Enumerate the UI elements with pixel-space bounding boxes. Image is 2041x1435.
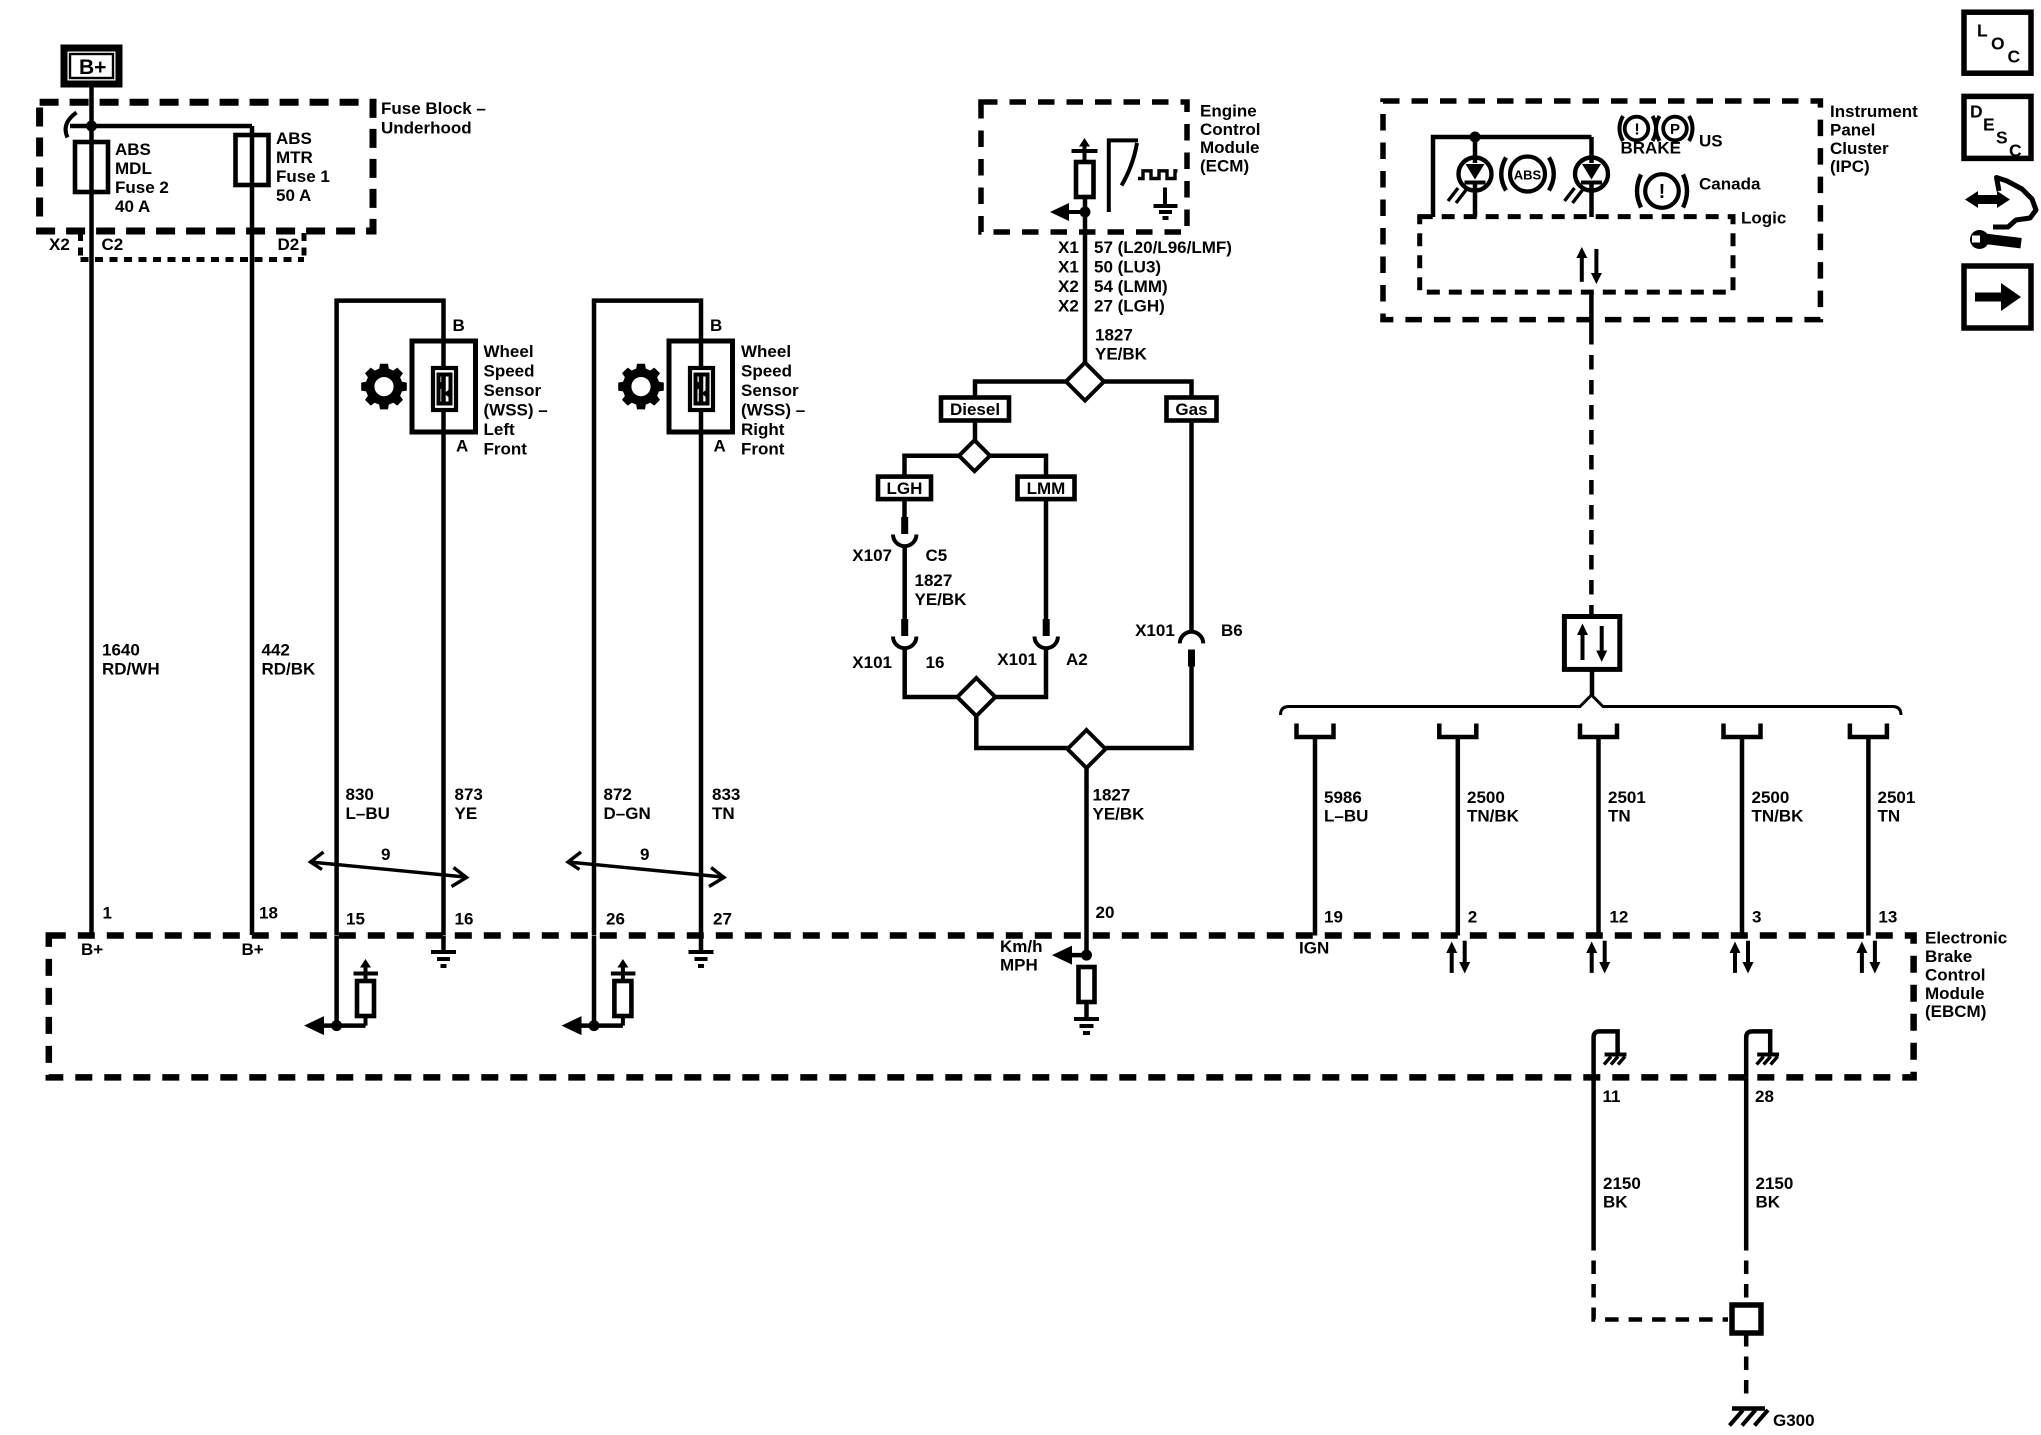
svg-text:20: 20 [1096,903,1115,922]
svg-text:YE/BK: YE/BK [1095,345,1148,364]
svg-text:27: 27 [713,910,732,929]
serial data arrows pin 2 [1446,941,1470,974]
svg-text:C: C [2008,47,2021,67]
splice block node [1732,1305,1761,1333]
serial data arrows in box [1577,624,1607,663]
svg-text:!: ! [1634,122,1639,139]
wire 833 TN label [712,785,740,823]
svg-text:X2: X2 [1058,297,1079,316]
svg-text:IGN: IGN [1299,939,1329,958]
svg-text:Canada: Canada [1699,175,1761,194]
wire S2 to LGH [905,456,960,477]
wire 2501 TN a [1596,739,1601,936]
svg-text:D: D [1970,102,1983,122]
svg-text:YE/BK: YE/BK [915,590,968,609]
svg-text:Fuse 2: Fuse 2 [115,178,169,197]
svg-text:B6: B6 [1221,621,1243,640]
wire 2150 BK label b [1756,1174,1794,1212]
dashed wire pin 28 to splice [1744,1237,1749,1302]
svg-text:5986: 5986 [1324,788,1362,807]
svg-text:Sensor: Sensor [484,381,542,400]
svg-text:442: 442 [262,641,290,660]
wire 2501 TN label b [1878,788,1916,826]
Gas box [1167,398,1217,421]
wire 1827 YE/BK to EBCM pin 20 [1084,768,1089,955]
svg-text:50 A: 50 A [276,186,311,205]
svg-text:Cluster: Cluster [1830,139,1889,158]
svg-text:C5: C5 [926,546,948,565]
wire 872 D-GN label [604,785,651,823]
wire 1827 YE/BK label upper [1095,326,1148,364]
wire 5986 L-BU label [1324,788,1368,826]
serial data symbol box [1564,617,1619,670]
svg-text:D2: D2 [278,235,300,254]
svg-text:Brake: Brake [1925,947,1972,966]
svg-text:12: 12 [1609,908,1628,927]
svg-text:11: 11 [1603,1087,1621,1106]
svg-text:L–BU: L–BU [1324,807,1368,826]
splice diamond S2 [959,440,990,471]
svg-text:X101: X101 [997,650,1037,669]
wire 2500 TN/BK label b [1752,788,1805,826]
svg-text:Km/h: Km/h [1000,937,1043,956]
wire 2501 TN b [1866,739,1871,936]
wire 2501 TN label a [1608,788,1646,826]
wire splice jumper to ABS MTR fuse [70,124,252,129]
svg-text:Wheel: Wheel [484,342,534,361]
svg-text:B+: B+ [79,56,106,79]
branch connector pin 13 [1850,724,1887,738]
svg-text:873: 873 [455,785,483,804]
ground symbol pin 16 [431,936,456,967]
svg-text:872: 872 [604,785,632,804]
wire WSS right front loop 872/833 [594,301,701,935]
svg-text:B+: B+ [81,940,103,959]
wire LMM to connector X101 A2 [1044,499,1049,620]
svg-text:1: 1 [103,904,112,923]
wire box to brace [1590,669,1595,696]
svg-text:1640: 1640 [102,641,140,660]
serial data arrows in logic box [1576,247,1602,284]
Fuse Block - Underhood dashed box [40,102,373,231]
svg-text:2501: 2501 [1608,788,1646,807]
svg-text:Electronic: Electronic [1925,929,2007,948]
twisted pair symbol left with note 9 [311,845,467,887]
svg-text:B: B [453,316,465,335]
inline connector X107 C5 [893,517,916,546]
svg-text:2: 2 [1468,908,1477,927]
wire diamond to Diesel [975,382,1066,398]
svg-text:A2: A2 [1066,650,1088,669]
svg-text:1827: 1827 [1093,785,1131,804]
wire 2150 BK label a [1603,1174,1641,1212]
power symbol in ECM [1072,138,1098,162]
svg-text:Front: Front [484,440,528,459]
wire 2150 BK pin 11 [1591,1077,1596,1237]
svg-text:57 (L20/L96/LMF): 57 (L20/L96/LMF) [1094,238,1232,257]
svg-text:3: 3 [1752,908,1761,927]
LOC reference box icon [1964,12,2031,73]
svg-text:RD/WH: RD/WH [102,660,160,679]
wheel speed sensor WSS left front box [412,341,476,432]
connector X2 strip dashed [81,233,305,260]
svg-text:1827: 1827 [915,571,953,590]
svg-text:ABS: ABS [115,140,151,159]
svg-text:Left: Left [484,420,516,439]
svg-text:C2: C2 [102,235,124,254]
svg-text:Control: Control [1200,120,1260,139]
arrow to other circuits in ECM [1050,203,1085,221]
pullup network pin 15 [304,936,378,1036]
svg-text:X107: X107 [852,546,892,565]
wire Diesel to diamond S2 [973,421,978,441]
fuse F1 ABS MTR 50A [236,135,269,185]
svg-text:Module: Module [1200,138,1260,157]
LMM box [1018,477,1075,500]
splice diamond S3 [957,678,995,716]
svg-text:L–BU: L–BU [346,804,390,823]
hook arc at splice [66,113,77,138]
svg-text:B: B [710,316,722,335]
gear icon left [361,364,407,410]
svg-text:X101: X101 [852,653,892,672]
wire resistor to output [1083,197,1088,363]
dashed serial data wire IPC to EBCM [1589,330,1594,614]
svg-text:27 (LGH): 27 (LGH) [1094,297,1165,316]
wire Gas to connector X101 B6 [1189,421,1194,633]
svg-text:US: US [1699,132,1723,151]
Electronic Brake Control Module EBCM dashed box [49,936,1914,1078]
splice diamond S4 [1068,730,1106,768]
svg-text:1827: 1827 [1095,326,1133,345]
wire 5986 L-BU [1313,739,1318,936]
svg-text:Right: Right [741,420,785,439]
svg-text:BK: BK [1603,1193,1628,1212]
wire lamp1 drop [1473,137,1478,217]
svg-text:X2: X2 [49,235,70,254]
svg-text:833: 833 [712,785,740,804]
svg-text:54 (LMM): 54 (LMM) [1094,277,1168,296]
dashed wire splice to G300 [1744,1333,1749,1402]
wire 2500 TN/BK label a [1467,788,1520,826]
svg-text:2150: 2150 [1603,1174,1641,1193]
ground G300 symbol [1730,1409,1769,1426]
wire X101-A2 to diamond S3 [995,648,1046,697]
label fuse 1 value [276,129,330,205]
wire 1827 YE/BK label mid [915,571,968,609]
svg-text:MDL: MDL [115,159,152,178]
serial data arrows pin 13 [1856,941,1880,974]
hand with arrow and wrench icon [1965,178,2036,250]
svg-text:Underhood: Underhood [381,119,472,138]
node splice at fuse feed [86,121,97,132]
svg-text:D–GN: D–GN [604,804,651,823]
svg-text:Control: Control [1925,965,1985,984]
node ECM output junction [1080,207,1091,218]
svg-text:19: 19 [1324,908,1343,927]
branch connector pin 3 [1724,724,1761,738]
svg-text:TN: TN [1608,807,1631,826]
Logic dashed box in IPC [1420,217,1733,293]
wire LGH to connector C5 [902,499,907,518]
svg-text:ABS: ABS [276,129,312,148]
ground symbol in ECM [1154,188,1178,219]
branch connector pin 2 [1439,724,1476,738]
indicator lamp 2 (brake telltale) [1565,158,1609,204]
wheel speed sensor WSS right front box [669,341,733,432]
svg-text:16: 16 [455,910,474,929]
label Instrument Panel Cluster (IPC) [1830,102,1918,176]
sensor element left [433,368,456,410]
pin table X1/X2 labels [1058,238,1232,316]
sensor element right [690,368,713,410]
svg-text:O: O [1991,34,2005,54]
pullup network pin 26 [562,936,636,1036]
svg-text:9: 9 [381,845,390,864]
label fuse 2 value [115,140,169,216]
svg-text:Diesel: Diesel [950,400,1000,419]
svg-text:(WSS) –: (WSS) – [741,401,805,420]
svg-text:G300: G300 [1773,1411,1815,1430]
svg-text:Gas: Gas [1175,400,1207,419]
svg-text:Panel: Panel [1830,120,1875,139]
svg-text:E: E [1983,115,1995,135]
svg-text:Wheel: Wheel [741,342,791,361]
branch connector pin 12 [1580,724,1617,738]
inline connector X101 pin 16 [893,619,916,648]
svg-text:A: A [714,437,726,456]
Instrument Panel Cluster IPC dashed box [1383,101,1820,320]
svg-text:Speed: Speed [741,362,792,381]
wire logic box to IPC edge [1589,292,1594,330]
arrow reference box icon [1964,266,2031,328]
svg-text:Speed: Speed [484,362,535,381]
wire WSS left front loop 830/873 [337,301,444,935]
svg-text:(EBCM): (EBCM) [1925,1002,1986,1021]
svg-text:L: L [1977,21,1988,41]
Canada brake warning symbol (!) [1637,174,1687,208]
svg-text:Fuse Block –: Fuse Block – [381,99,486,118]
wire 830 L-BU label [346,785,390,823]
wire X101-B6 to diamond S4 [1106,667,1192,749]
wire 1827 YE/BK label lower [1093,785,1146,823]
wire lamp feed bus in IPC [1433,137,1592,217]
label wheel speed sensor right front [741,342,805,459]
svg-text:13: 13 [1878,908,1897,927]
wire 873 YE label [455,785,483,823]
US brake warning symbols (!)(P) BRAKE [1620,116,1693,157]
svg-text:40 A: 40 A [115,197,150,216]
wire diamond to Gas [1104,382,1192,398]
label Engine Control Module (ECM) [1200,101,1260,175]
svg-text:TN: TN [712,804,735,823]
wire 2500 TN/BK a [1456,739,1461,936]
svg-text:LGH: LGH [887,479,923,498]
svg-text:S: S [1996,128,2008,148]
svg-text:TN/BK: TN/BK [1467,807,1520,826]
svg-text:BRAKE: BRAKE [1621,138,1681,157]
svg-text:YE/BK: YE/BK [1093,804,1146,823]
fuse F2 ABS MDL 40A [75,142,108,192]
svg-text:2150: 2150 [1756,1174,1794,1193]
svg-text:Module: Module [1925,984,1985,1003]
wire 2500 TN/BK b [1740,739,1745,936]
svg-text:Front: Front [741,440,785,459]
wire 442 RD/BK label [262,641,317,679]
wire 1640 RD/WH label [102,641,160,679]
chassis ground pin 28 inside EBCM [1746,1031,1779,1077]
wire fuse1 feed vertical [250,126,255,935]
svg-text:BK: BK [1756,1193,1781,1212]
svg-text:2500: 2500 [1467,788,1505,807]
svg-text:MPH: MPH [1000,956,1038,975]
svg-text:50 (LU3): 50 (LU3) [1094,258,1161,277]
indicator lamp 1 (ABS telltale) [1448,158,1492,204]
svg-text:16: 16 [926,653,945,672]
svg-text:Logic: Logic [1741,209,1786,228]
svg-text:(ECM): (ECM) [1200,157,1249,176]
svg-text:(WSS) –: (WSS) – [484,401,548,420]
inline connector X101 pin A2 [1035,619,1058,648]
svg-text:A: A [456,437,468,456]
inline connector X101 pin B6 (flipped) [1180,632,1203,667]
svg-text:X101: X101 [1135,621,1175,640]
chassis ground pin 11 inside EBCM [1594,1031,1627,1077]
svg-text:ABS: ABS [1514,168,1542,183]
wire S2 to LMM [990,456,1046,477]
svg-text:X1: X1 [1058,238,1079,257]
dashed wire pin 11 to splice [1594,1237,1728,1320]
wire B+ feed to fuses [89,84,94,935]
serial data arrows pin 12 [1586,941,1610,974]
svg-text:YE: YE [455,804,478,823]
svg-text:26: 26 [606,910,625,929]
svg-text:Sensor: Sensor [741,381,799,400]
svg-text:X2: X2 [1058,277,1079,296]
label wheel speed sensor left front [484,342,548,459]
PWM signal symbol in ECM [1138,171,1178,179]
Diesel box [941,398,1009,421]
svg-text:TN: TN [1878,807,1901,826]
svg-text:C: C [2009,141,2022,161]
wire C5 to X101-16 [902,546,907,620]
svg-text:X1: X1 [1058,258,1079,277]
svg-text:Engine: Engine [1200,101,1257,120]
svg-text:(IPC): (IPC) [1830,157,1870,176]
svg-text:LMM: LMM [1027,479,1066,498]
wire 2150 BK pin 28 [1744,1077,1749,1237]
Engine Control Module ECM dashed box [981,102,1187,232]
svg-text:RD/BK: RD/BK [262,660,317,679]
speed signal network pin 20 [1000,937,1099,1033]
svg-text:B+: B+ [242,940,264,959]
branch connector pin 19 [1297,724,1334,738]
bus brace [1281,695,1902,715]
LGH box [878,477,931,500]
label Electronic Brake Control Module (EBCM) [1925,929,2007,1022]
serial data arrows pin 3 [1730,941,1754,974]
twisted pair symbol right with note 9 [568,845,724,887]
svg-text:9: 9 [640,845,649,864]
node lamp1 tap [1470,132,1481,143]
wire S3 to S4 [976,716,1067,748]
ABS indicator symbol [1501,157,1554,192]
splice diamond S1 [1066,363,1104,401]
svg-text:15: 15 [346,910,365,929]
svg-text:830: 830 [346,785,374,804]
wire X101-16 to diamond S3 [905,648,958,697]
svg-text:2501: 2501 [1878,788,1916,807]
svg-text:!: ! [1659,181,1666,203]
wire lamp2 drop [1589,137,1594,217]
B+ battery feed box [64,48,119,84]
resistor in ECM (VSS pullup) [1076,162,1094,197]
svg-text:MTR: MTR [276,148,313,167]
svg-text:TN/BK: TN/BK [1752,807,1805,826]
svg-text:28: 28 [1755,1087,1774,1106]
svg-text:2500: 2500 [1752,788,1790,807]
switch symbol in ECM [1109,140,1138,212]
svg-text:Fuse 1: Fuse 1 [276,167,330,186]
ground symbol pin 27 [689,936,714,967]
DESC reference box icon [1964,96,2031,160]
svg-text:Instrument: Instrument [1830,102,1918,121]
svg-text:18: 18 [259,904,278,923]
svg-text:P: P [1670,121,1680,138]
gear icon right [618,364,664,410]
